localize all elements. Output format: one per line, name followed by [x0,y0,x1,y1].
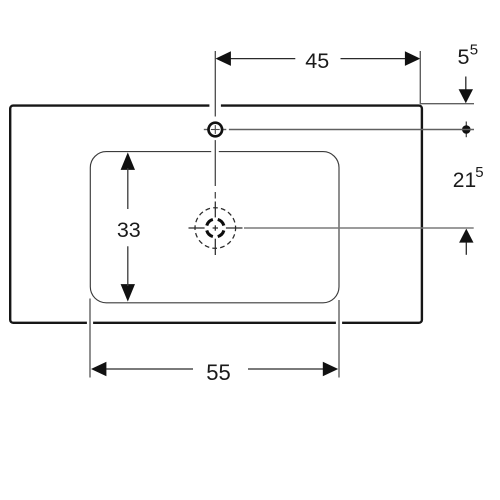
dimension 21 5 label [453,164,484,192]
dimension 5 5 label [458,42,479,70]
drain hole dashed circle [195,208,236,249]
svg-text:5: 5 [475,164,483,181]
extension lines for dimension 55 [90,299,339,378]
horizontal reference line from drain to right edge [244,227,474,229]
faucet hole [209,123,223,137]
dimension 45 [216,49,421,73]
extension line right of dimension 45 [419,51,421,104]
gap masks in heavy outline [87,104,342,325]
dimension 55 [91,360,338,385]
svg-text:33: 33 [117,218,141,242]
basin inner outline [90,151,339,303]
svg-text:5: 5 [458,45,470,69]
reference dot at faucet height [462,122,471,138]
down arrow for dimension 5 5 [459,77,473,104]
drain crosshair [189,202,243,256]
svg-text:45: 45 [305,49,329,73]
svg-text:5: 5 [470,42,478,59]
reference line at basin top edge level (5.5 dim) [420,103,474,105]
svg-text:21: 21 [453,169,476,192]
up arrow for dimension 21 5 [459,229,473,255]
svg-text:55: 55 [206,360,230,385]
vertical centerline through faucet hole [214,51,216,199]
dimension 33 [117,152,141,301]
horizontal centerline from faucet hole to right reference dot [204,119,474,140]
washbasin outer outline [10,106,422,323]
drain hole heavy ring [207,219,224,236]
